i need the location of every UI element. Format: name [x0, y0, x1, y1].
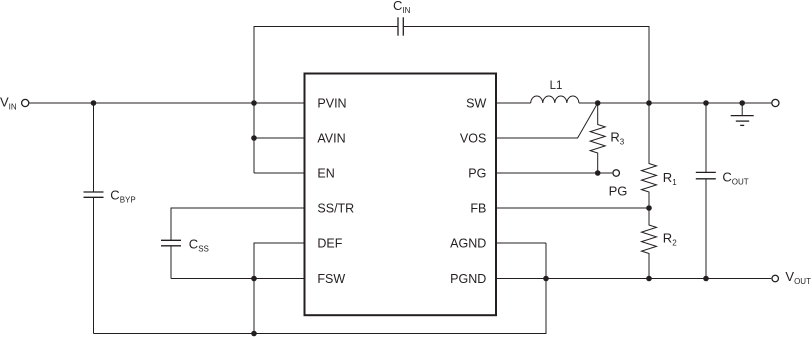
svg-text:R3: R3	[610, 129, 624, 146]
node COUT bottom junction	[703, 276, 709, 282]
resistor R3	[590, 103, 605, 173]
svg-text:PG: PG	[468, 167, 486, 181]
node PVIN junction	[251, 100, 257, 106]
svg-text:SW: SW	[466, 97, 486, 111]
wire AGND stub	[496, 242, 546, 244]
wire PGND output rail	[496, 278, 771, 280]
svg-text:R2: R2	[663, 231, 677, 248]
wire ground stub	[741, 103, 743, 116]
node FSW junction	[251, 276, 257, 282]
svg-text:PVIN: PVIN	[317, 97, 346, 111]
node ground junction	[739, 100, 745, 106]
capacitor CBYP	[84, 192, 104, 197]
resistor R1	[642, 103, 657, 208]
wire SS/TR branch	[171, 208, 306, 240]
wire CBYP column upper	[93, 103, 95, 192]
node PG terminal	[613, 170, 620, 177]
svg-text:PGND: PGND	[450, 272, 486, 286]
node VOUT terminal	[772, 275, 779, 282]
svg-text:AVIN: AVIN	[317, 132, 345, 146]
wire DEF branch	[254, 243, 306, 279]
op-amp U1 IC body	[305, 74, 497, 316]
svg-text:PG: PG	[609, 184, 628, 199]
node ground rail junction	[251, 331, 257, 337]
wire CSS lower column	[170, 246, 172, 279]
node FB junction	[646, 205, 652, 211]
node COUT top junction	[703, 100, 709, 106]
capacitor CSS	[161, 240, 181, 246]
node R2 bottom junction	[646, 276, 652, 282]
svg-text:FSW: FSW	[317, 272, 345, 286]
ground symbol	[731, 116, 754, 126]
node GND terminal	[772, 99, 779, 106]
wire PG stub	[496, 172, 612, 174]
wire COUT column upper	[705, 103, 707, 172]
node SW-L1 junction	[595, 100, 601, 106]
svg-text:CIN: CIN	[393, 0, 411, 15]
wire FSW drop to ground rail	[253, 279, 255, 334]
capacitor COUT	[696, 172, 716, 178]
svg-text:L1: L1	[550, 80, 563, 92]
node AVIN junction	[251, 135, 257, 141]
svg-text:DEF: DEF	[317, 237, 342, 251]
wire CBYP column lower	[93, 197, 95, 333]
wire EN stub	[254, 172, 306, 174]
wire CIN top rail left	[254, 27, 398, 174]
wire output top rail	[579, 102, 771, 104]
node VIN junction	[91, 100, 97, 106]
svg-text:CSS: CSS	[189, 236, 209, 253]
svg-text:FB: FB	[470, 202, 486, 216]
svg-text:AGND: AGND	[450, 237, 486, 251]
capacitor CIN	[398, 17, 403, 35]
svg-text:VOS: VOS	[460, 132, 486, 146]
svg-text:COUT: COUT	[722, 169, 748, 186]
wire VOS stub with diagonal	[496, 103, 598, 138]
svg-text:VOUT: VOUT	[785, 269, 811, 286]
svg-text:VIN: VIN	[0, 94, 17, 111]
wire SW stub	[496, 102, 531, 104]
wire FSW row	[171, 278, 306, 280]
wire COUT column lower	[705, 179, 707, 279]
node PG junction	[595, 170, 601, 176]
wire FB stub	[496, 207, 649, 209]
wire CIN top rail right	[403, 27, 649, 104]
node CIN-R1 junction	[646, 100, 652, 106]
resistor R2	[642, 208, 657, 279]
wire AVIN stub	[254, 137, 306, 139]
svg-text:EN: EN	[317, 167, 334, 181]
wire VIN input rail	[29, 102, 305, 104]
wire bottom ground rail	[94, 243, 547, 334]
inductor L1	[531, 96, 579, 103]
svg-text:R1: R1	[663, 170, 677, 187]
node AGND junction	[543, 276, 549, 282]
svg-text:SS/TR: SS/TR	[317, 202, 354, 216]
node VIN terminal	[22, 99, 29, 106]
svg-text:CBYP: CBYP	[110, 188, 135, 205]
